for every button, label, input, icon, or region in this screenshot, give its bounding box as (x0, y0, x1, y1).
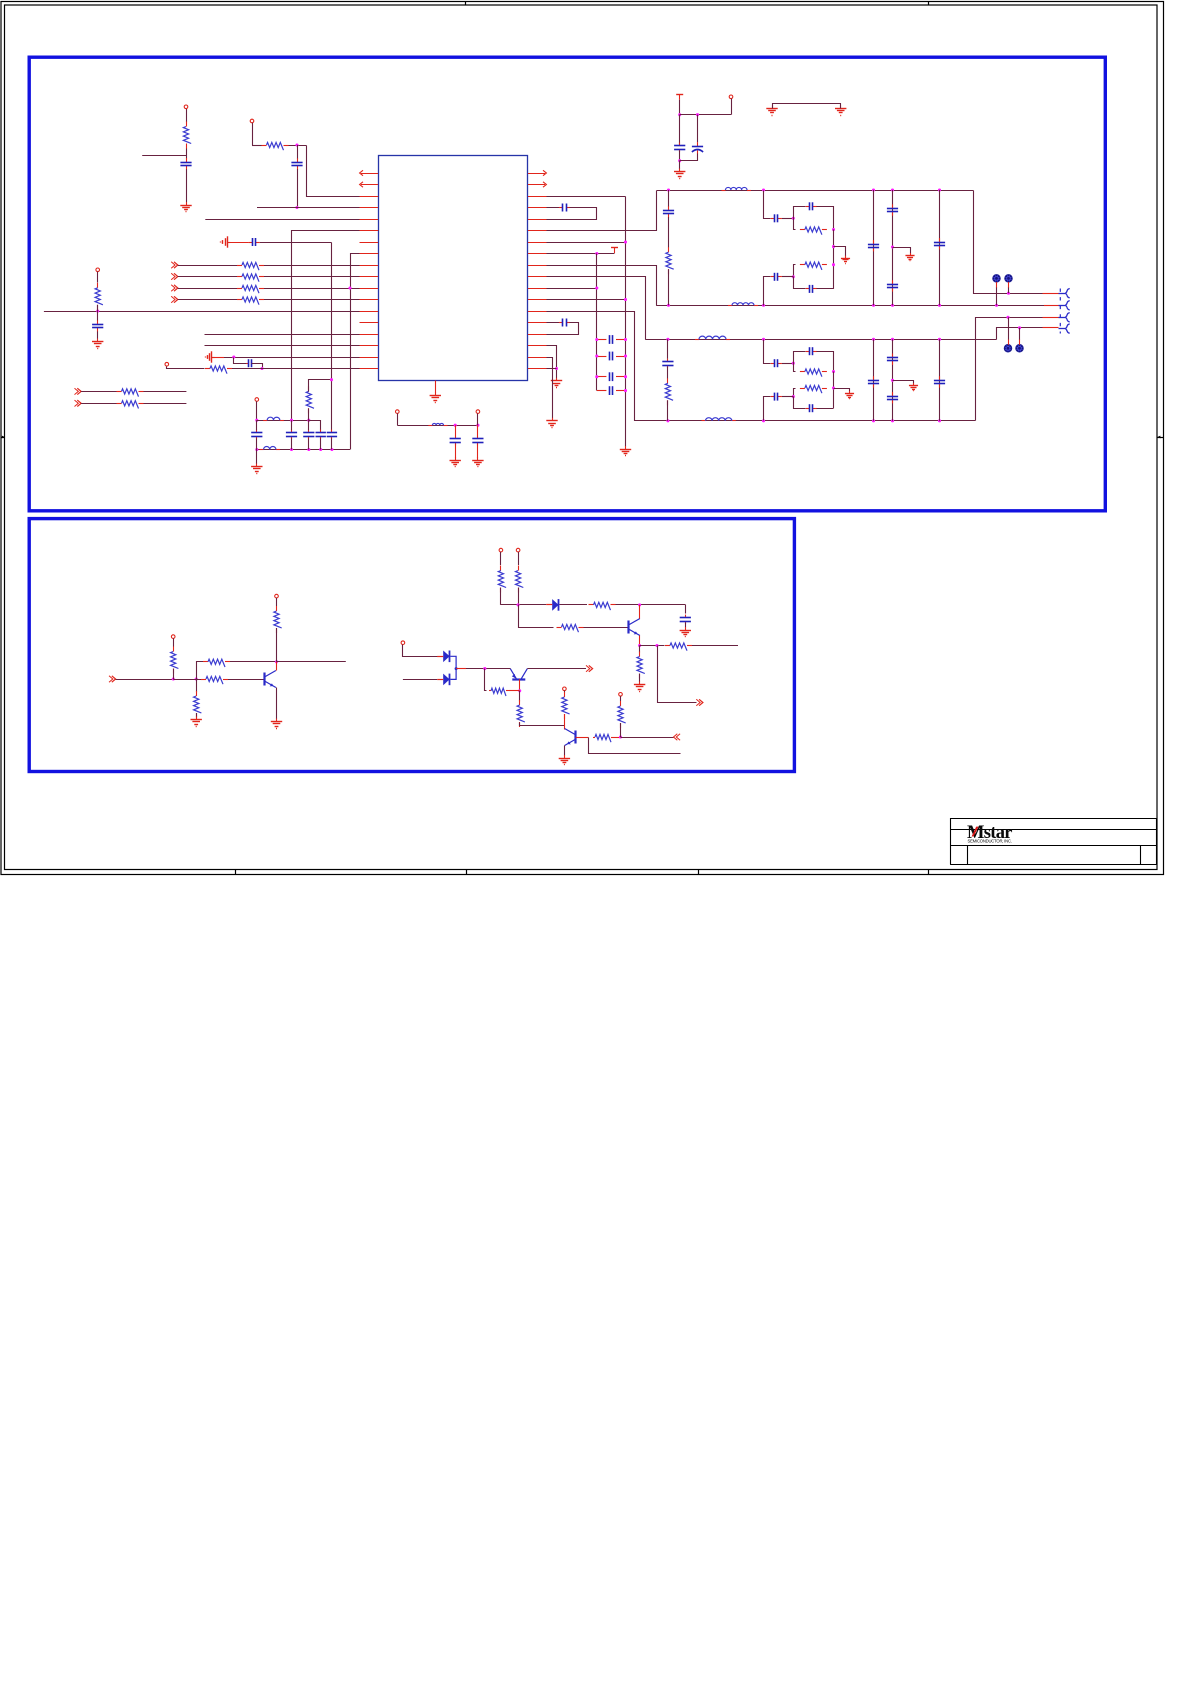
wire f2 shunt top (667, 339, 669, 359)
wire S1 red (996, 282, 998, 288)
connector stub 2 (1044, 305, 1059, 307)
diode D3 (546, 599, 558, 611)
IC left pin stub row9 (360, 265, 379, 267)
wire C17 right (616, 376, 626, 378)
IC left pin stub row16 (360, 345, 379, 347)
power pin P14 (396, 410, 400, 414)
capacitor C27 (887, 280, 898, 291)
filter1 col2 (892, 190, 894, 305)
ground f2 col2 (909, 383, 918, 390)
wire R5 to IC (264, 288, 378, 290)
inductor L1 (722, 187, 752, 190)
wire riser bot 308.8 (308, 438, 310, 449)
wire R10 right (144, 403, 187, 405)
wire f2 col2 gnd tap (893, 381, 914, 384)
wire node to R30 (639, 646, 641, 653)
wire P13 down (620, 696, 622, 701)
capacitor C33 (771, 393, 782, 401)
shield connector S3 (1004, 345, 1011, 352)
junction Q2 emitter (638, 644, 641, 647)
wire G1 to C3 (227, 242, 248, 244)
IC right pin stub row16 (528, 345, 547, 347)
input port arrow RIN (674, 734, 681, 740)
MStar logo red accent (972, 827, 979, 837)
vertical rail V2 (596, 254, 598, 391)
capacitor C36 (887, 354, 898, 365)
power tap T1 (676, 94, 683, 100)
junction row18 cap (260, 367, 263, 370)
junction Q2 collector top (638, 603, 641, 606)
resistor R7 (95, 283, 103, 310)
input port arrow IN4 (171, 296, 178, 302)
ground GR1 (551, 378, 562, 388)
wire join stub (456, 668, 466, 670)
IC left pin stub row11 (360, 288, 379, 290)
resistor R12 (666, 247, 674, 274)
wire R32 corner (520, 723, 565, 726)
junction f1 bot x873 (872, 304, 875, 307)
junction bypass rail1 a (255, 419, 258, 422)
wire node to R32 (519, 691, 521, 702)
junction row17 cap (232, 355, 235, 358)
wire VCC to R1 top (186, 109, 188, 122)
wire row16R (529, 346, 557, 379)
capacitor C15 (610, 335, 613, 344)
junction f2 top x667 (666, 338, 669, 341)
wire pf rail (397, 425, 478, 427)
junction col2 mid (891, 245, 894, 248)
junction conn row4 (1018, 326, 1021, 329)
wire C41 down (455, 444, 457, 458)
inductor FB2 (260, 447, 281, 450)
zone tick top 2 (928, 2, 930, 5)
capacitor C6 (674, 143, 685, 152)
resistor R35 (618, 701, 626, 728)
wire S2 down (1008, 287, 1010, 293)
junction f1 bot x668 (667, 304, 670, 307)
diode D2 (437, 674, 449, 686)
capacitor C34 (806, 404, 817, 412)
junction stack left 2 (595, 354, 598, 357)
filter1 col3 (939, 190, 941, 305)
junction conn row3 (1006, 316, 1009, 319)
wire R31 to node (508, 690, 520, 692)
junction C6 C7 node (696, 113, 699, 116)
junction emitter out (655, 644, 658, 647)
wire R22 to collector (230, 661, 277, 663)
wire C15 right (616, 339, 626, 341)
wire f1 series leg2 (764, 277, 771, 306)
resistor R4 (237, 274, 264, 282)
ground Q2 (634, 682, 645, 692)
junction rail2 d (319, 448, 322, 451)
capacitor C41 (450, 436, 461, 445)
junction f2 bot x873 (872, 419, 875, 422)
capacitor C23 (771, 273, 782, 281)
wire f2 rc up (794, 352, 806, 364)
wire P8 down (276, 598, 278, 606)
junction node B (295, 143, 298, 146)
wire C16 left (597, 356, 607, 358)
wire f1 rc2 down (794, 277, 806, 289)
wire row4 (257, 207, 378, 209)
filter2 col3 (939, 339, 941, 421)
zone tick top 1 (465, 2, 467, 5)
wire f1 rc down (794, 219, 796, 230)
resistor R30 (637, 652, 645, 679)
IC left pin stub row5 (360, 219, 379, 221)
wire join to Q3 (466, 668, 511, 670)
MStar logo subtext (968, 839, 1013, 844)
junction f2 rc node (792, 362, 795, 365)
wire node2 to ground (679, 161, 681, 169)
wire row4R to C8 (529, 207, 560, 209)
wire cap C5 left leg (234, 358, 249, 364)
capacitor C25 (868, 240, 879, 251)
IC right pin stub row13 (528, 311, 547, 313)
wire R2 to node B (289, 145, 307, 147)
wire R11 top corner (309, 380, 332, 392)
capacitor C38 (934, 376, 945, 387)
junction C2 row4 (295, 206, 298, 209)
inductor L4 (702, 418, 736, 421)
junction rail2 a (255, 448, 258, 451)
input port arrow IN1 (171, 262, 178, 268)
shield connector S1 (993, 275, 1000, 282)
ground below C6 C7 (674, 169, 685, 179)
capacitor C12 (286, 430, 297, 439)
wire C32 to rail (817, 352, 834, 372)
wire f1 rc up (794, 207, 806, 219)
wire f1 rc2 left (794, 265, 796, 277)
junction f2 bot x892 (891, 419, 894, 422)
filter2 col1 (873, 339, 875, 421)
wire f2 rc down (794, 364, 796, 372)
resistor R2 (262, 142, 289, 150)
wire C9 loop (529, 323, 579, 335)
resistor R33 (562, 692, 570, 719)
wire bypass rail1 (257, 420, 309, 422)
junction f1 top x873 (872, 188, 875, 191)
capacitor C40 (680, 615, 691, 624)
filter2 top rail (645, 339, 996, 341)
arrowhead left row2 (360, 182, 363, 187)
junction f2 rc2 node (792, 395, 795, 398)
wire ground bridge (773, 104, 841, 109)
ground GB (835, 105, 846, 115)
resistor R22 (203, 659, 230, 667)
wire node to R23 (196, 679, 198, 692)
wire C34 to rail (817, 408, 834, 410)
wire P2 down (252, 123, 254, 145)
junction diode join (455, 667, 458, 670)
power pin P5 (255, 398, 259, 402)
junction rail2 b (290, 448, 293, 451)
wire row15 (205, 334, 379, 336)
wire C7 to node2 (680, 154, 698, 161)
junction Q4 base pullup (619, 735, 622, 738)
junction row12R V1 (624, 298, 627, 301)
wire f2 gnd tap (834, 389, 850, 392)
wire C8 loop (529, 208, 597, 220)
ground below V1 (620, 446, 631, 456)
ground b2 Q1 (271, 719, 282, 729)
power pin P8 (275, 594, 279, 598)
wire row18R (528, 368, 557, 370)
junction f2 top x873 (872, 338, 875, 341)
sheet outer border (1, 2, 1164, 875)
wire diode join (451, 656, 457, 679)
junction f2 rc right a (832, 370, 835, 373)
junction stack right 4 (624, 389, 627, 392)
wire Q3 base down (519, 679, 521, 691)
capacitor C9 (559, 319, 570, 327)
filter2 rc right rail (833, 372, 835, 409)
wire S4 up (1019, 328, 1021, 340)
wire f1 gnd tap (834, 247, 846, 257)
wire C18 right (616, 390, 626, 392)
IC right pin stub row17 (528, 357, 547, 359)
ground below IC (430, 393, 441, 403)
wire riser bot 331.9 (331, 438, 333, 449)
filter2 out corner top (997, 328, 1043, 340)
zone tick bottom 4 (928, 869, 930, 874)
ground C40 (680, 627, 691, 637)
resistor R6 (237, 297, 264, 305)
IC right pin stub row10 (528, 276, 547, 278)
junction b2 base node a (172, 677, 175, 680)
capacitor C20 (663, 206, 674, 217)
wire C40 to ground (685, 623, 687, 628)
capacitor C28 (934, 238, 945, 249)
junction bias node (483, 667, 486, 670)
junction f2 bot x763 (762, 419, 765, 422)
resistor R26 (516, 566, 524, 593)
wire D3 to R27 (560, 604, 588, 606)
connector stub 3 (1043, 317, 1059, 319)
wire R27 right (616, 604, 686, 606)
IC right pin stub row3 (528, 196, 547, 198)
filter1 out corner (974, 191, 1043, 294)
junction pf a (454, 424, 457, 427)
junction f2 bot x939 (938, 419, 941, 422)
junction f2 bot x667 (666, 419, 669, 422)
wire Q1 collector (276, 662, 278, 671)
wire f1 series leg (764, 191, 771, 219)
ground Q4 (559, 755, 570, 765)
wire S3 red (1008, 340, 1010, 345)
power tap T2 (611, 248, 618, 254)
connector stub 4 (1043, 327, 1059, 329)
wire stub node A (142, 155, 186, 157)
wire Q2 collector (639, 605, 641, 619)
wire IN4 to R (178, 299, 242, 301)
chassis ground G1 (221, 236, 231, 247)
shield connector S2 (1005, 275, 1012, 282)
wire P2 to R2 (252, 145, 262, 147)
wire T1 node right (680, 114, 731, 116)
junction stack right 1 (624, 338, 627, 341)
IC right pin stub row11 (528, 288, 547, 290)
wire P7 down (173, 638, 175, 646)
IC left pin stub row7 (360, 242, 379, 244)
vertical rail V1 (625, 197, 627, 447)
junction diode rail (517, 603, 520, 606)
IC U1 body (379, 156, 528, 381)
wire node to C7 (697, 115, 699, 143)
junction R11 top (330, 378, 333, 381)
wire row8R (528, 253, 615, 255)
junction f1 rc right a (832, 228, 835, 231)
ground below C11 (251, 464, 262, 474)
power pin P6 (729, 95, 733, 99)
IC left pin stub row6 (360, 230, 379, 232)
junction f1 rc right b (832, 245, 835, 248)
junction f1 top x763 (762, 188, 765, 191)
wire row5 (205, 219, 378, 221)
wire R34 to node (613, 737, 621, 739)
resistor R32 (517, 700, 525, 727)
wire Q1 emitter (276, 688, 278, 720)
junction conn row2 (1007, 292, 1010, 295)
IC left pin stub row12 (360, 299, 379, 301)
connector J1 pin 2 (1059, 301, 1070, 310)
connector stub 1 (1043, 293, 1059, 295)
zone tick bottom 3 (698, 869, 700, 874)
wire C24 to rail (817, 288, 834, 290)
power pin P15 (476, 410, 480, 414)
wire R8 to IC (232, 368, 378, 370)
wire C33 to node (782, 396, 793, 398)
wire C23 to node (782, 276, 793, 278)
wire R1 to C1 (186, 149, 188, 159)
wire R7 to C4 (97, 305, 99, 321)
junction bypass rail1 c (307, 419, 310, 422)
wire R20 to node (173, 669, 175, 680)
junction f2 top x763 (762, 338, 765, 341)
power pin P1 (184, 105, 188, 109)
wire Q3 collector out (527, 668, 586, 670)
wire R6 to IC (264, 299, 378, 301)
IC right pin stub row15 (528, 334, 547, 336)
junction f1 top x892 (891, 188, 894, 191)
capacitor C21 (771, 214, 782, 222)
wire C22 to rail (817, 207, 834, 230)
junction f1 bot x939 (938, 304, 941, 307)
IC left pin stub row8 (360, 253, 379, 255)
output port arrow OUT1 (696, 699, 703, 705)
capacitor C11 (251, 430, 262, 439)
wire C42 top (477, 425, 479, 436)
junction T1 node (678, 113, 681, 116)
wire row6R riser (529, 191, 657, 231)
connector J1 dashed body (1059, 289, 1061, 334)
capacitor C35 (868, 376, 879, 387)
wire C31 to node (782, 363, 793, 365)
IC right pin stub row7 (528, 242, 547, 244)
wire cap C5 right leg (252, 364, 263, 369)
capacitor C2 (291, 158, 302, 169)
wire P14 down (397, 413, 399, 425)
wire riser top 308.8 (308, 420, 310, 430)
junction f1 top x668 (667, 188, 670, 191)
capacitor C22 (806, 202, 817, 210)
wire BIN1 (116, 679, 174, 681)
wire C41 top (455, 425, 457, 436)
arrowhead right row2 (543, 182, 546, 187)
junction row11 vertical (348, 286, 351, 289)
junction f1 rc2 node (792, 275, 795, 278)
wire rail1 to C13 top (309, 421, 321, 431)
power pin P13 (619, 693, 623, 697)
connector J1 pin 3 (1059, 313, 1070, 322)
wire IN6 (81, 403, 121, 405)
capacitor C17 (610, 372, 613, 381)
wire S1 down (996, 287, 998, 305)
junction b2 base node b (195, 677, 198, 680)
input port arrow IN5 (75, 388, 82, 394)
wire IN1 to R (178, 265, 242, 267)
wire T1 down (679, 100, 681, 115)
resistor R31 (489, 688, 508, 696)
IC left pin stub row13 (360, 311, 379, 313)
wire P12 down (564, 691, 566, 693)
wire P4 to row18 (167, 367, 205, 369)
resistor R28 (557, 624, 584, 632)
schematic block frame 2 (29, 519, 794, 772)
wire f1 shunt top (668, 190, 670, 207)
ground b2 R23 (191, 717, 202, 727)
wire input 2 (403, 679, 437, 681)
junction f2 top x892 (891, 338, 894, 341)
junction collector node (275, 660, 278, 663)
capacitor C3 (249, 238, 260, 246)
wire corner down to C14 (331, 243, 333, 431)
wire f2 shunt bot (667, 400, 669, 421)
wire R29 right (692, 645, 738, 647)
IC right pin stub row14 (528, 322, 547, 324)
wire P3 down (97, 272, 99, 283)
capacitor C8 (559, 204, 570, 212)
schematic block frame 1 (29, 57, 1105, 511)
connector J1 pin 1 (1059, 289, 1070, 298)
resistor R20 (171, 647, 179, 674)
arrowhead right row1 (543, 170, 546, 175)
wire row12R (528, 299, 626, 301)
ground GA (766, 105, 777, 115)
resistor R21 (201, 676, 228, 684)
capacitor C37 (887, 392, 898, 403)
resistor R29 (665, 643, 692, 651)
capacitor C42 (472, 436, 483, 445)
ground C42 (472, 457, 483, 466)
wire C3 to corner (260, 242, 332, 244)
resistor R1 (183, 122, 191, 149)
IC left pin stub row3 (360, 196, 379, 198)
ground f1 mid (841, 256, 850, 264)
resistor R16 (800, 369, 827, 377)
wire node to C6 (679, 115, 681, 144)
ground below C4 (92, 339, 103, 349)
IC bottom ground stub (435, 381, 437, 394)
resistor R11 (306, 386, 314, 413)
resistor R25 (498, 566, 506, 593)
resistor R10 (117, 401, 144, 409)
capacitor C26 (887, 204, 898, 215)
wire f1 shunt bot (668, 269, 670, 305)
junction rail2 c (307, 448, 310, 451)
IC right pin stub row5 (528, 219, 547, 221)
